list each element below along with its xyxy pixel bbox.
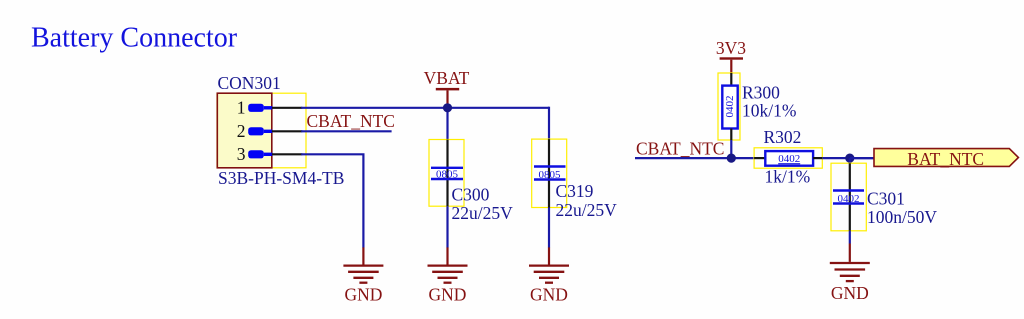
pin 3 stub — [272, 153, 303, 155]
svg-text:1: 1 — [237, 97, 246, 117]
svg-text:0402: 0402 — [838, 193, 860, 205]
connector CON301 body — [217, 93, 271, 168]
ground GND 2 — [428, 247, 468, 304]
svg-text:0805: 0805 — [436, 169, 459, 181]
pin 3 pad — [248, 150, 264, 158]
svg-text:S3B-PH-SM4-TB: S3B-PH-SM4-TB — [218, 168, 344, 188]
svg-text:R300: R300 — [742, 82, 780, 102]
svg-text:CON301: CON301 — [218, 73, 281, 93]
ground GND 1 — [343, 247, 383, 304]
wire net VBAT horizontal — [301, 107, 549, 109]
port BAT_NTC — [874, 149, 1018, 167]
svg-text:GND: GND — [344, 284, 382, 304]
wire pin 3 to GND — [301, 154, 363, 247]
svg-text:100n/50V: 100n/50V — [867, 207, 937, 227]
svg-text:GND: GND — [530, 284, 568, 304]
wire net CBAT_NTC (pin 2) — [301, 130, 391, 132]
capacitor C319 yellow box — [532, 139, 567, 207]
power port VBAT — [436, 88, 459, 91]
wire VBAT to C319 — [548, 107, 550, 140]
svg-text:C319: C319 — [556, 181, 594, 201]
svg-text:0805: 0805 — [539, 169, 562, 181]
capacitor C301 yellow box — [831, 163, 866, 231]
power port 3V3 — [720, 57, 743, 59]
wire C301 to GND — [849, 231, 851, 244]
pin 1 stub — [272, 107, 303, 109]
wire net CBAT_NTC right — [635, 157, 754, 159]
svg-text:R302: R302 — [764, 127, 802, 147]
resistor R300 — [722, 73, 737, 140]
svg-text:BAT_NTC: BAT_NTC — [907, 149, 984, 169]
ground GND 3 — [529, 247, 569, 304]
junction R302/C301 — [845, 154, 854, 163]
resistor R302 — [754, 151, 822, 166]
wire R302 to junction 2 — [822, 157, 874, 159]
svg-text:0402: 0402 — [778, 153, 800, 165]
svg-text:3: 3 — [237, 144, 246, 164]
wire junction to C301 — [849, 158, 851, 163]
svg-text:3V3: 3V3 — [716, 38, 746, 58]
svg-text:10k/1%: 10k/1% — [742, 101, 796, 121]
svg-text:GND: GND — [429, 284, 467, 304]
pin 1 pad — [248, 104, 264, 112]
svg-text:GND: GND — [831, 283, 869, 303]
junction VBAT — [443, 103, 452, 112]
ground GND 4 — [830, 244, 870, 303]
wire C300 to GND — [446, 206, 448, 247]
capacitor C319 — [534, 139, 566, 207]
pin 2 pad — [248, 127, 264, 135]
svg-text:22u/25V: 22u/25V — [452, 203, 514, 223]
resistor R302 yellow box — [754, 148, 822, 168]
svg-text:Battery Connector: Battery Connector — [31, 23, 238, 54]
svg-text:1k/1%: 1k/1% — [765, 167, 811, 187]
resistor R300 yellow box — [718, 73, 740, 140]
svg-text:VBAT: VBAT — [424, 68, 470, 88]
wire VBAT to C300 — [446, 108, 448, 140]
junction CBAT_NTC/R300 — [727, 154, 736, 163]
wire C319 to GND — [548, 208, 550, 248]
pin 2 stub — [272, 130, 303, 132]
svg-text:0402: 0402 — [724, 96, 736, 118]
connector CON301 yellow bounding box — [217, 93, 306, 168]
svg-text:C301: C301 — [867, 188, 905, 208]
svg-text:CBAT_NTC: CBAT_NTC — [636, 138, 724, 158]
svg-text:CBAT_NTC: CBAT_NTC — [307, 111, 395, 131]
capacitor C300 yellow box — [429, 140, 464, 207]
wire R300 to junction — [730, 140, 732, 158]
svg-text:2: 2 — [237, 121, 246, 141]
capacitor C300 — [431, 140, 463, 207]
svg-text:22u/25V: 22u/25V — [556, 200, 618, 220]
wire junction 2 to port BAT_NTC — [850, 157, 874, 159]
svg-text:C300: C300 — [452, 184, 490, 204]
capacitor C301 — [833, 163, 864, 231]
